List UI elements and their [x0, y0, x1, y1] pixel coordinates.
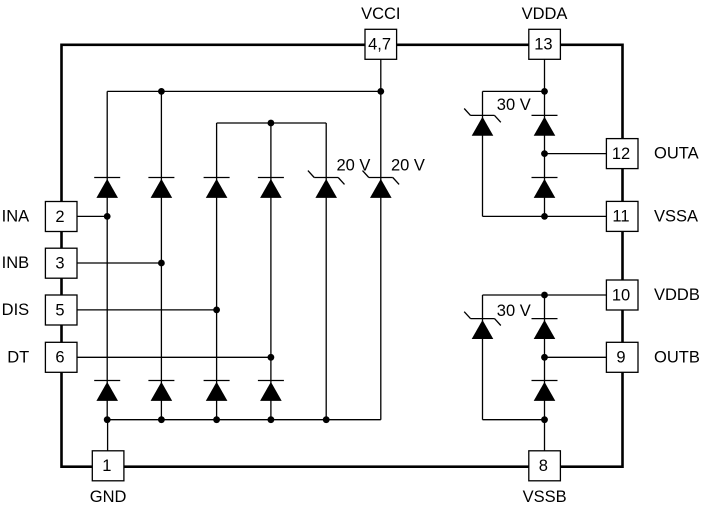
- svg-text:8: 8: [539, 457, 548, 475]
- junction bus1-col2: [158, 88, 165, 95]
- junction VDDB rail: [541, 292, 548, 299]
- svg-text:VSSA: VSSA: [654, 207, 698, 225]
- junction INA-col1: [104, 213, 111, 220]
- wire GND bus: [107, 419, 381, 421]
- wire pin1 stub: [107, 420, 109, 451]
- svg-text:VSSB: VSSB: [523, 488, 567, 506]
- zener D9 20 V (col5): [308, 171, 345, 198]
- junction DT-col4: [268, 354, 275, 361]
- svg-text:VDDB: VDDB: [654, 286, 700, 304]
- pin 2 box: [45, 202, 77, 232]
- svg-text:20 V: 20 V: [337, 156, 371, 174]
- diode D3 (col3 up to bus): [204, 178, 230, 198]
- wire cell B left branch: [482, 295, 484, 420]
- wire pin8 stub: [544, 420, 546, 451]
- wire VSSA rail: [483, 215, 607, 217]
- svg-text:INA: INA: [2, 207, 30, 225]
- diode D4 (col4 up to bus): [258, 178, 284, 198]
- svg-text:30 V: 30 V: [497, 96, 531, 114]
- wire bus2 (DIS/DT clamp bus): [217, 122, 327, 124]
- pin 10 box: [606, 280, 638, 310]
- junction VSSA rail: [541, 213, 548, 220]
- pin 4,7 box: [365, 29, 397, 59]
- zener D14 30 V (VDDB clamp): [464, 312, 501, 339]
- diode D2 (col2 up to bus): [148, 178, 174, 198]
- svg-text:11: 11: [612, 208, 629, 226]
- svg-text:10: 10: [612, 286, 630, 304]
- junction INB-col2: [158, 260, 165, 267]
- junction GND-col1: [104, 416, 111, 423]
- diode D12 (VDDA branch upper): [532, 115, 558, 135]
- diode D13 (OUTA to VDDA): [532, 178, 558, 198]
- pin 1 box: [92, 451, 124, 481]
- svg-text:INB: INB: [2, 254, 30, 272]
- svg-text:12: 12: [612, 145, 630, 163]
- junction OUTA rail: [541, 150, 548, 157]
- svg-text:GND: GND: [90, 488, 127, 506]
- wire cell A top rail: [483, 90, 545, 92]
- junction OUTB rail: [541, 354, 548, 361]
- svg-text:30 V: 30 V: [497, 302, 531, 320]
- wire OUTB row: [545, 356, 607, 358]
- zener D11 30 V (VDDA clamp): [464, 109, 501, 136]
- wire INA row: [77, 215, 107, 217]
- svg-text:13: 13: [534, 36, 552, 54]
- wire column 5 (zener 20 V): [325, 123, 327, 420]
- wire column 4 (DT): [270, 123, 272, 420]
- pin 8 box: [529, 451, 561, 481]
- wire column 1 (INA): [106, 91, 108, 419]
- junction GND-col4: [268, 416, 275, 423]
- diode D6 (GND up to col2): [148, 381, 174, 401]
- wire DIS row: [77, 309, 216, 311]
- diode D8 (GND up to col4): [258, 381, 284, 401]
- svg-text:DT: DT: [7, 348, 29, 366]
- wire column 6 (VCCI zener): [380, 59, 382, 419]
- wire VCCI bus (net VCCI top): [107, 90, 381, 92]
- junction GND-col5: [323, 416, 330, 423]
- IC boundary: [62, 45, 623, 467]
- pin 9 box: [606, 342, 638, 372]
- svg-text:1: 1: [102, 457, 111, 475]
- wire cell B bottom rail: [483, 419, 545, 421]
- svg-text:6: 6: [55, 349, 64, 367]
- pin 6 box: [45, 342, 77, 372]
- zener D10 20 V (VCCI clamp): [363, 171, 400, 198]
- wire cell B right branch: [544, 295, 546, 420]
- junction bus1-VCCI: [377, 88, 384, 95]
- pin 12 box: [606, 139, 638, 169]
- svg-text:OUTA: OUTA: [654, 145, 699, 163]
- junction bus2-col4: [268, 120, 275, 127]
- wire DT row: [77, 356, 271, 358]
- svg-text:3: 3: [55, 255, 64, 273]
- svg-text:VCCI: VCCI: [361, 5, 400, 23]
- svg-text:2: 2: [55, 208, 64, 226]
- wire INB row: [77, 262, 161, 264]
- svg-text:20 V: 20 V: [391, 156, 425, 174]
- diode D15 (VDDB branch upper): [532, 319, 558, 339]
- wire cell A right branch: [544, 91, 546, 216]
- svg-text:VDDA: VDDA: [522, 5, 568, 23]
- svg-text:OUTB: OUTB: [654, 348, 700, 366]
- pin 3 box: [45, 248, 77, 278]
- junction GND-col3: [213, 416, 220, 423]
- diode D5 (GND up to col1): [94, 381, 120, 401]
- diode D16 (OUTB to VDDB): [532, 381, 558, 401]
- junction VDDA rail: [541, 88, 548, 95]
- junction DIS-col3: [213, 307, 220, 314]
- diode D1 (col1 up to bus): [94, 178, 120, 198]
- wire VDDB rail: [483, 294, 607, 296]
- pin 11 box: [606, 201, 638, 231]
- pin 5 box: [45, 295, 77, 325]
- pin 13 box: [529, 29, 561, 59]
- wire cell A left branch: [482, 91, 484, 216]
- wire column 3 (DIS): [216, 123, 218, 420]
- diode D7 (GND up to col3): [204, 381, 230, 401]
- wire column 2 (INB): [160, 91, 162, 419]
- svg-text:5: 5: [55, 301, 64, 319]
- wire VDDA stub: [544, 59, 546, 91]
- junction GND-col2: [158, 416, 165, 423]
- svg-text:DIS: DIS: [2, 301, 30, 319]
- junction VSSB rail: [541, 416, 548, 423]
- wire OUTA row: [545, 153, 607, 155]
- svg-text:4,7: 4,7: [368, 36, 391, 54]
- svg-text:9: 9: [616, 349, 625, 367]
